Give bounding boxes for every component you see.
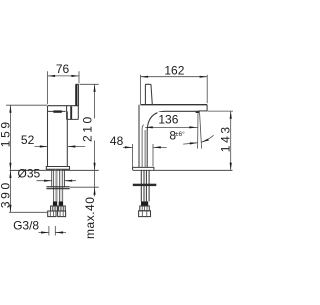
hose nut right (58, 211, 66, 217)
thread right view (140, 206, 150, 211)
dimension 210 (80, 84, 99, 170)
svg-text:143: 143 (218, 124, 232, 152)
dimension 162 (141, 75, 208, 105)
countertop line (10, 169, 99, 171)
dimension 52 (35, 145, 86, 147)
svg-text:210: 210 (81, 114, 95, 142)
hose nut left (48, 211, 56, 217)
svg-text:76: 76 (56, 62, 70, 76)
hose crimp right (59, 201, 63, 206)
hose thread left (51, 206, 58, 211)
pillar inner line 1 (142, 125, 144, 168)
dimension max.40 (70, 170, 99, 196)
spout underside (147, 111, 199, 167)
label 136 (158, 112, 180, 126)
wire body column right edge (66, 111, 68, 166)
base plate right view (133, 167, 154, 170)
label 8±6° (169, 128, 185, 142)
hose lines left (54, 169, 57, 201)
dimension 136 (145, 126, 197, 128)
blade bottom near tip (199, 110, 207, 112)
shank outer tube left (51, 169, 53, 186)
water stream lines (198, 113, 202, 149)
dimension 390 (9, 170, 47, 212)
wire blade bottom edge (48, 110, 66, 112)
svg-text:136: 136 (158, 112, 178, 126)
svg-text:±6°: ±6° (175, 130, 185, 138)
svg-text:Ø35: Ø35 (18, 166, 41, 180)
dimension Ø35 (37, 180, 77, 182)
pillar inner line 2 (144, 130, 146, 167)
dimension 159 (6, 105, 47, 170)
svg-text:48: 48 (110, 134, 124, 148)
svg-text:159: 159 (0, 119, 13, 147)
handle bar (76, 84, 79, 106)
angle arc 8deg (183, 135, 213, 144)
hose thread right (58, 206, 65, 211)
crimp right view (141, 201, 148, 206)
aerator nub (196, 111, 200, 113)
dimension 143 (207, 111, 233, 170)
nut right view (139, 211, 151, 217)
base plate (46, 167, 69, 170)
handle base block shading line (70, 106, 72, 119)
hose middle line left (54, 169, 56, 201)
wire blade top edge (48, 105, 79, 107)
svg-text:390: 390 (0, 180, 13, 208)
svg-text:G3/8: G3/8 (13, 218, 39, 232)
hose middle line right (60, 169, 62, 201)
svg-text:162: 162 (164, 63, 184, 77)
wire body column left edge (47, 106, 49, 167)
hoses below counter (141, 170, 149, 202)
pillar back edge (138, 105, 140, 168)
shank outer tube right (64, 169, 66, 186)
dimension G3/8 (39, 226, 67, 236)
svg-text:52: 52 (21, 133, 35, 147)
dimension 76 (48, 71, 80, 104)
dimension 48 (123, 144, 167, 167)
blade right end (206, 105, 208, 111)
handle side view (145, 84, 152, 104)
flange right view (133, 184, 157, 186)
hose crimp left (53, 201, 57, 206)
countertop line right view (133, 169, 233, 171)
aerator slot (53, 110, 61, 112)
blade top edge (140, 104, 207, 106)
handle base block (67, 106, 79, 119)
svg-text:max.40: max.40 (83, 197, 97, 239)
hose lines right (59, 169, 62, 201)
mounting flange (46, 187, 69, 189)
handle bar thick edge (76, 85, 78, 106)
